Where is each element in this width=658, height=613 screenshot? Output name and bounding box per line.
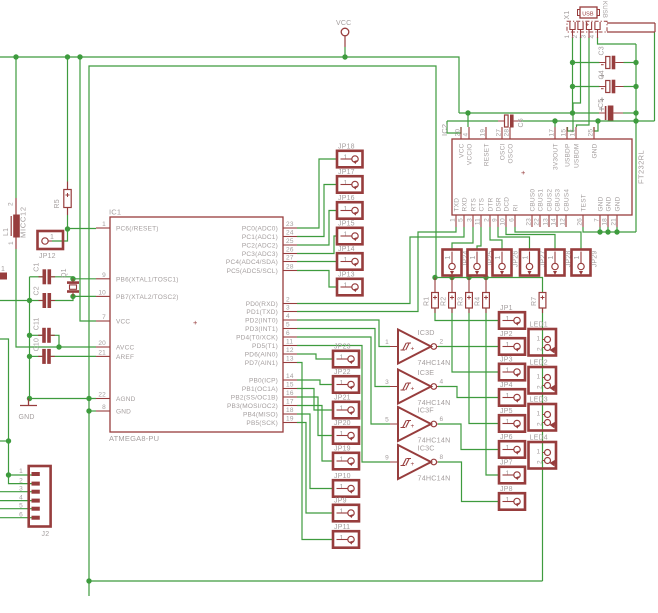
- svg-text:IC3D: IC3D: [418, 328, 435, 337]
- wire IC1 pin17 to JP19: [297, 406, 333, 462]
- LED LED3: [529, 397, 557, 431]
- wire C11 row right with drop to AVCC row: [51, 335, 60, 347]
- wire USB pin4 GND to right rail: [598, 37, 637, 44]
- junction VCC stub on rail: [342, 54, 347, 59]
- wire y=121 row left of C6: [447, 120, 498, 122]
- connector JP3: [499, 356, 525, 380]
- svg-text:8: 8: [102, 404, 106, 411]
- wire pin17 drop: [554, 121, 556, 127]
- svg-text:VCC: VCC: [459, 143, 466, 157]
- wire J2 pin4 feed: [0, 500, 32, 502]
- svg-text:PB4(MISO): PB4(MISO): [243, 412, 278, 419]
- svg-text:TEST: TEST: [581, 194, 588, 211]
- connector JP8: [499, 486, 525, 510]
- svg-text:24: 24: [286, 230, 294, 237]
- svg-text:7: 7: [594, 218, 601, 222]
- svg-text:PD4(T0/XCK): PD4(T0/XCK): [236, 335, 278, 342]
- svg-text:JP1: JP1: [500, 305, 513, 312]
- svg-text:JP8: JP8: [500, 486, 513, 493]
- wire C4 row right: [624, 86, 637, 88]
- svg-text:PC6(/RESET): PC6(/RESET): [116, 226, 159, 233]
- junction C3 right on rail: [633, 60, 638, 65]
- svg-text:3: 3: [467, 218, 474, 222]
- connector JP6: [499, 434, 525, 458]
- junction x8 y441: [6, 438, 11, 443]
- connector JP7: [499, 459, 525, 483]
- svg-text:KUSB: KUSB: [601, 1, 607, 18]
- capacitor C6: [498, 115, 525, 128]
- svg-text:JP26: JP26: [513, 251, 520, 268]
- svg-text:1: 1: [340, 406, 344, 413]
- svg-text:1: 1: [340, 457, 344, 464]
- wire R2 bottom to JP3: [452, 308, 499, 372]
- svg-text:14: 14: [286, 373, 294, 380]
- svg-text:JP22: JP22: [334, 369, 351, 376]
- wire VCC row y=113: [459, 112, 599, 114]
- capacitor C10: [34, 338, 55, 364]
- wire C3 row left: [573, 62, 600, 64]
- svg-text:JP15: JP15: [338, 220, 355, 227]
- svg-text:1: 1: [340, 431, 344, 438]
- svg-text:1: 1: [506, 316, 510, 323]
- svg-text:16: 16: [570, 129, 577, 137]
- svg-text:+: +: [193, 318, 198, 327]
- wire IC1 pin12 to JP23: [297, 354, 333, 359]
- svg-text:JP10: JP10: [334, 473, 351, 480]
- wire J2 pin5 feed: [0, 508, 32, 510]
- capacitor C3: [598, 46, 623, 77]
- svg-text:2: 2: [440, 339, 444, 346]
- resistor R4 pin stubs: [485, 278, 487, 314]
- svg-text:12: 12: [286, 347, 294, 354]
- svg-text:JP11: JP11: [334, 524, 350, 531]
- wire C10 row left: [30, 355, 43, 357]
- connector JP17: [337, 169, 363, 193]
- svg-text:16: 16: [286, 390, 294, 397]
- svg-text:26: 26: [286, 247, 294, 254]
- svg-text:AVCC: AVCC: [116, 345, 134, 352]
- svg-text:1: 1: [344, 283, 348, 290]
- svg-text:1: 1: [344, 180, 348, 187]
- svg-text:23: 23: [286, 221, 294, 228]
- capacitor fragment at left edge: [0, 266, 7, 280]
- resistor R1 pin stubs: [434, 278, 436, 314]
- wire IC3E output to JP4: [438, 387, 499, 398]
- svg-text:R2: R2: [441, 297, 448, 306]
- wire C3 row right: [624, 62, 637, 64]
- junction GND pin8 on x89 rail: [86, 408, 91, 413]
- wire IC1 pin26 to JP15: [297, 236, 337, 254]
- svg-text:1: 1: [385, 339, 389, 346]
- svg-text:1: 1: [537, 411, 541, 418]
- svg-text:AGND: AGND: [116, 396, 136, 403]
- svg-text:1: 1: [523, 255, 530, 259]
- svg-text:1: 1: [340, 535, 344, 542]
- svg-text:JP16: JP16: [338, 195, 355, 202]
- connector JP4: [499, 382, 525, 406]
- svg-text:GND: GND: [592, 143, 599, 158]
- wire R7 bottom LED column to bottom rail: [542, 308, 544, 581]
- op-amp IC1 ATMEGA8-PU: [96, 208, 297, 444]
- svg-text:ATMEGA8-PU: ATMEGA8-PU: [109, 434, 159, 443]
- wire USB pin2 to IC2 USBDP: [568, 37, 581, 131]
- svg-text:6: 6: [440, 416, 444, 423]
- svg-text:6: 6: [286, 330, 290, 337]
- svg-text:20: 20: [455, 129, 462, 137]
- junction x67 on VCC rail: [65, 54, 70, 59]
- svg-text:CBUS4: CBUS4: [564, 189, 571, 212]
- wire pin4 VCCIO drop: [467, 113, 469, 127]
- ground symbol GND: [19, 399, 38, 422]
- svg-text:1: 1: [340, 380, 344, 387]
- wire IC2 DCD to JP28: [506, 227, 555, 250]
- svg-text:26: 26: [577, 218, 584, 226]
- connector JP25: [468, 250, 495, 276]
- resistor R2: [441, 293, 456, 309]
- svg-text:1: 1: [50, 234, 54, 241]
- svg-text:PD6(AIN0): PD6(AIN0): [245, 352, 278, 359]
- connector JP29: [572, 250, 599, 276]
- svg-text:LED1: LED1: [530, 322, 548, 329]
- svg-text:6: 6: [19, 512, 23, 519]
- svg-text:1: 1: [102, 221, 106, 228]
- inductor L1 MICC12: [3, 198, 28, 249]
- connector JP9: [333, 497, 359, 521]
- svg-text:PC5(ADC5/SCL): PC5(ADC5/SCL): [227, 268, 278, 275]
- connector JP12: [38, 231, 64, 260]
- inverter IC3C 74HC14N: [385, 444, 450, 483]
- svg-text:2: 2: [536, 422, 543, 426]
- svg-text:2: 2: [8, 202, 15, 206]
- svg-text:17: 17: [549, 129, 556, 137]
- svg-text:JP17: JP17: [338, 169, 355, 176]
- LED LED1: [529, 322, 557, 356]
- junction AGND x29 node: [27, 396, 32, 401]
- svg-text:IC3E: IC3E: [418, 368, 435, 377]
- svg-text:3: 3: [19, 486, 23, 493]
- svg-text:JP3: JP3: [500, 356, 513, 363]
- svg-text:2: 2: [536, 385, 543, 389]
- connector JP13: [337, 271, 363, 295]
- svg-text:9: 9: [492, 218, 499, 222]
- svg-text:OSCO: OSCO: [508, 144, 515, 164]
- svg-text:1: 1: [344, 257, 348, 264]
- junction GND pin x=617: [614, 229, 619, 234]
- svg-text:R1: R1: [424, 297, 431, 306]
- svg-text:MICC12: MICC12: [19, 206, 28, 238]
- svg-text:OSCI: OSCI: [500, 144, 507, 161]
- svg-text:4: 4: [286, 313, 290, 320]
- svg-text:PC2(ADC2): PC2(ADC2): [242, 243, 278, 250]
- junction VBUS C3 row: [570, 60, 575, 65]
- svg-text:1: 1: [537, 449, 541, 456]
- connector JP5: [499, 408, 525, 432]
- svg-text:CBUS2: CBUS2: [547, 189, 554, 212]
- svg-text:1: 1: [506, 419, 510, 426]
- wire IC2 DSR to JP27: [498, 227, 530, 250]
- wire IC1 pin19 to JP9: [297, 423, 333, 514]
- svg-text:JP19: JP19: [334, 445, 351, 452]
- svg-text:PB2(SS/OC1B): PB2(SS/OC1B): [231, 395, 278, 402]
- LED LED4: [529, 435, 557, 469]
- connector JP11: [333, 524, 359, 548]
- connector JP15: [337, 220, 363, 244]
- wire crystal bottom node to IC1 pin10: [73, 295, 96, 297]
- crystal Q1: [61, 268, 79, 296]
- svg-text:1: 1: [506, 445, 510, 452]
- svg-text:74HC14N: 74HC14N: [418, 474, 451, 483]
- svg-text:8: 8: [440, 454, 444, 461]
- svg-text:1: 1: [340, 355, 344, 362]
- junction C5 on GND rail: [633, 110, 638, 115]
- svg-text:FT232RL: FT232RL: [637, 150, 646, 184]
- svg-text:1: 1: [574, 255, 581, 259]
- svg-text:4: 4: [463, 133, 470, 137]
- svg-text:DCD: DCD: [504, 197, 511, 212]
- junction x16 on VCC rail: [13, 54, 18, 59]
- connector JP10: [333, 473, 359, 497]
- junction C10 row x29: [27, 354, 32, 359]
- svg-text:3: 3: [286, 305, 290, 312]
- wire C1 row left segment: [30, 276, 43, 278]
- svg-text:LED2: LED2: [530, 360, 548, 367]
- junction R1 top on rail: [432, 275, 437, 280]
- svg-text:JP4: JP4: [500, 382, 513, 389]
- wire R4 bottom to JP7: [486, 308, 499, 475]
- junction C11 row x29: [27, 333, 32, 338]
- wire IC1 pin15 to JP21: [297, 389, 333, 411]
- svg-text:R7: R7: [531, 297, 538, 306]
- svg-text:C4: C4: [598, 70, 605, 79]
- svg-text:17: 17: [286, 399, 294, 406]
- svg-text:1: 1: [564, 35, 571, 39]
- svg-text:PD7(AIN1): PD7(AIN1): [245, 360, 278, 367]
- connector JP27: [520, 250, 547, 276]
- junction VBUS C4 row: [570, 84, 575, 89]
- capacitor C4: [598, 70, 623, 101]
- svg-text:USBDP: USBDP: [565, 144, 572, 167]
- svg-text:JP12: JP12: [39, 253, 56, 260]
- supply VCC symbol: [336, 20, 351, 57]
- junction AGND on x89 rail: [86, 396, 91, 401]
- svg-text:PB7(XTAL2/TOSC2): PB7(XTAL2/TOSC2): [116, 294, 179, 301]
- wire IC2 GND pin drop x=617: [616, 227, 618, 232]
- svg-text:2: 2: [19, 478, 23, 485]
- wire USB pin3 to IC2 USBDM: [577, 37, 590, 127]
- svg-text:PB1(OC1A): PB1(OC1A): [242, 386, 278, 393]
- svg-text:JP7: JP7: [500, 459, 513, 466]
- wire IC1 pin25 to JP16: [297, 211, 337, 246]
- svg-text:CBUS0: CBUS0: [530, 189, 537, 212]
- wire IC1 pin16 to JP20: [297, 397, 333, 436]
- svg-text:1: 1: [344, 206, 348, 213]
- svg-text:10: 10: [500, 218, 507, 226]
- junction C2 row x29: [27, 298, 32, 303]
- svg-text:C3: C3: [598, 46, 605, 55]
- svg-text:C5: C5: [598, 99, 605, 108]
- wire J2 pin2 feed: [9, 475, 32, 484]
- svg-text:18: 18: [602, 218, 609, 226]
- svg-text:DSR: DSR: [496, 197, 503, 211]
- svg-text:+: +: [411, 423, 415, 430]
- wire R3 bottom to JP5: [469, 308, 499, 424]
- wire USB pin1 VBUS drop: [572, 37, 574, 113]
- wire IC3F output to JP6: [438, 424, 499, 450]
- wire x89 rail to IC1 pin8 GND: [89, 410, 96, 412]
- wire x=67 R5 drop from VCC rail: [67, 57, 69, 182]
- svg-text:VCC: VCC: [116, 319, 130, 326]
- wire left-edge feed y=339 to x8 drop: [0, 339, 9, 475]
- junction x8 y475: [6, 472, 11, 477]
- svg-text:PB5(SCK): PB5(SCK): [246, 420, 278, 427]
- svg-text:28: 28: [504, 129, 511, 137]
- svg-text:2: 2: [572, 35, 579, 39]
- svg-text:14: 14: [551, 218, 558, 226]
- wire IC1 pin3 to IC2 TXD: [297, 227, 456, 312]
- svg-text:1: 1: [8, 241, 15, 245]
- wire IC1 pin6 to IC3F input: [297, 337, 390, 424]
- wire IC2 DTR to JP26: [490, 227, 502, 250]
- svg-text:1: 1: [1, 266, 5, 273]
- svg-text:GND: GND: [606, 196, 613, 211]
- svg-text:PC4(ADC4/SDA): PC4(ADC4/SDA): [226, 259, 278, 266]
- junction crystal bottom node: [70, 294, 75, 299]
- junction R4 top on rail: [483, 275, 488, 280]
- svg-text:12: 12: [560, 218, 567, 226]
- svg-text:VCC: VCC: [336, 20, 351, 27]
- inverter IC3D 74HC14N: [385, 328, 450, 367]
- svg-text:20: 20: [98, 340, 106, 347]
- svg-text:1: 1: [506, 393, 510, 400]
- svg-text:5: 5: [458, 218, 465, 222]
- svg-text:CTS: CTS: [479, 197, 486, 211]
- svg-text:C11: C11: [34, 317, 41, 330]
- svg-text:JP20: JP20: [334, 420, 351, 427]
- svg-text:22: 22: [98, 392, 106, 399]
- junction C11 on AVCC row: [56, 344, 61, 349]
- svg-text:6: 6: [509, 218, 516, 222]
- connector JP23: [333, 343, 359, 367]
- svg-text:1: 1: [506, 497, 510, 504]
- svg-text:3: 3: [581, 35, 588, 39]
- connector JP21: [333, 394, 359, 418]
- svg-text:JP6: JP6: [500, 434, 513, 441]
- svg-text:RTS: RTS: [471, 198, 478, 212]
- svg-text:21: 21: [611, 218, 618, 226]
- capacitor C5: [598, 99, 623, 121]
- svg-text:CBUS3: CBUS3: [555, 189, 562, 212]
- svg-text:L1: L1: [3, 228, 10, 236]
- svg-text:C1: C1: [34, 262, 41, 271]
- svg-text:1: 1: [506, 471, 510, 478]
- wire resistor rail y=277.5 to R7: [435, 278, 543, 293]
- wire IC2 RI to JP29: [515, 227, 581, 250]
- svg-text:74HC14N: 74HC14N: [418, 358, 451, 367]
- svg-text:15: 15: [561, 129, 568, 137]
- connector JP19: [333, 445, 359, 469]
- wire IC1 pin13 to JP11: [297, 363, 333, 540]
- wire IC1 pin27 to JP14: [297, 261, 337, 263]
- svg-text:13: 13: [286, 356, 294, 363]
- svg-text:CBUS1: CBUS1: [538, 189, 545, 212]
- wire y121 elbow to IC2 pin20: [447, 121, 461, 133]
- connector JP2: [499, 331, 525, 355]
- junction C4 right on rail: [633, 84, 638, 89]
- resistor R4: [475, 293, 490, 309]
- svg-text:IC3C: IC3C: [418, 444, 435, 453]
- resistor R5: [54, 182, 71, 216]
- svg-text:1: 1: [495, 255, 502, 259]
- svg-text:LED3: LED3: [530, 397, 548, 404]
- connector JP24: [443, 250, 470, 276]
- svg-text:1: 1: [340, 509, 344, 516]
- svg-text:+: +: [411, 386, 415, 393]
- connector JP14: [337, 246, 363, 270]
- svg-text:1: 1: [506, 342, 510, 349]
- svg-text:4: 4: [440, 379, 444, 386]
- wire IC1 pin4 to IC3D input: [297, 320, 390, 347]
- junction crystal top node: [70, 276, 75, 281]
- wire IC3D output to JP2: [438, 346, 499, 348]
- svg-text:PB3(MOSI/OC2): PB3(MOSI/OC2): [227, 403, 278, 410]
- svg-text:+: +: [411, 346, 415, 353]
- junction USB VBUS on y113: [570, 110, 575, 115]
- svg-text:TXD: TXD: [454, 198, 461, 212]
- svg-text:11: 11: [475, 218, 482, 225]
- svg-text:4: 4: [19, 495, 23, 502]
- wire J2 pin3 feed: [0, 491, 32, 493]
- svg-text:5: 5: [385, 417, 389, 424]
- resistor R7: [531, 293, 546, 309]
- svg-text:PC1(ADC1): PC1(ADC1): [242, 234, 278, 241]
- resistor R1: [424, 293, 439, 309]
- svg-text:1: 1: [344, 232, 348, 239]
- capacitor C2: [34, 286, 56, 308]
- junction reset node: [65, 226, 70, 231]
- svg-text:25: 25: [588, 129, 595, 137]
- svg-text:JP13: JP13: [338, 271, 355, 278]
- svg-text:IC3F: IC3F: [418, 406, 435, 415]
- svg-text:AREF: AREF: [116, 354, 134, 361]
- svg-text:2: 2: [536, 347, 543, 351]
- wire y=121 row right of C6: [521, 120, 655, 122]
- resistor R3 pin stubs: [468, 278, 470, 314]
- junction R3 top on rail: [466, 275, 471, 280]
- wire R5 bottom to reset junction: [67, 215, 69, 229]
- svg-text:RXD: RXD: [462, 197, 469, 211]
- wire C2 row right to crystal bottom node: [51, 296, 73, 300]
- wire IC2 CTS to JP25: [477, 227, 481, 250]
- svg-text:RI: RI: [513, 205, 520, 212]
- wire IC1 pin24 to JP17: [297, 185, 337, 237]
- op-amp IC2 FT232RL: [440, 124, 646, 227]
- svg-text:PD2(INT0): PD2(INT0): [245, 318, 278, 325]
- svg-text:1: 1: [344, 155, 348, 162]
- svg-text:4: 4: [589, 35, 596, 39]
- wire C4 row left: [573, 86, 600, 88]
- svg-text:9: 9: [102, 272, 106, 279]
- inverter IC3F 74HC14N: [385, 406, 450, 445]
- junction pin4 VCCIO on y113: [465, 110, 470, 115]
- svg-text:9: 9: [385, 455, 389, 462]
- svg-text:R4: R4: [475, 297, 482, 306]
- capacitor C1: [34, 262, 56, 284]
- wire VCC top rail y=57 with right drop to IC2 area: [0, 57, 459, 113]
- svg-text:PB6(XTAL1/TOSC1): PB6(XTAL1/TOSC1): [116, 276, 179, 283]
- wire reset junction to IC1 pin1: [68, 228, 97, 230]
- wire C2 row from left edge: [0, 300, 43, 302]
- svg-text:VCCIO: VCCIO: [467, 144, 474, 166]
